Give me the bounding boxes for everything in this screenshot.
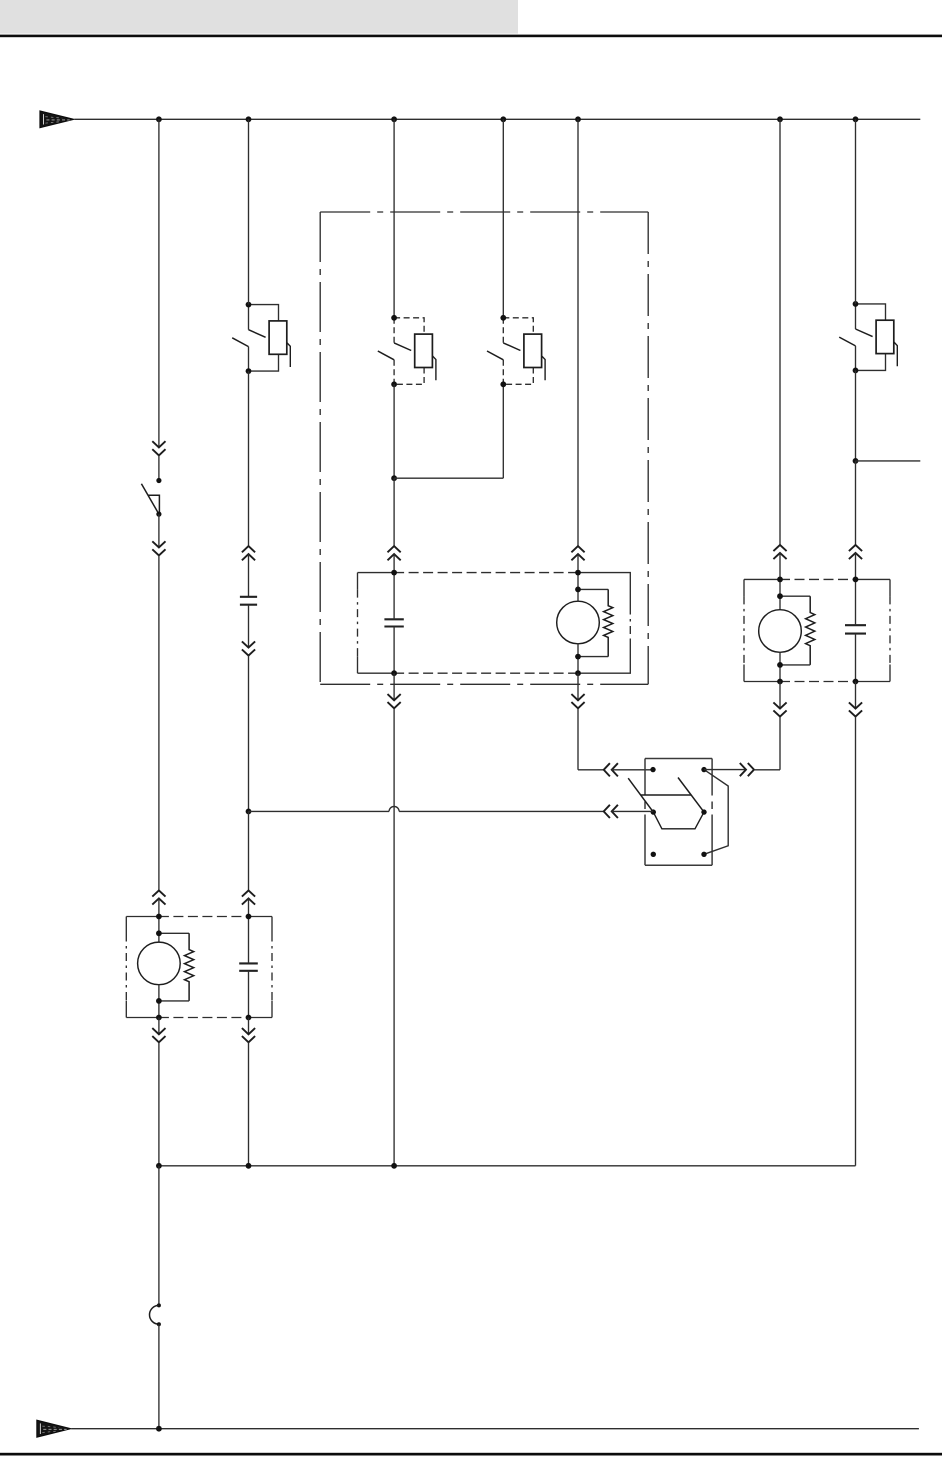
connector C7a (double chevron up) (849, 545, 862, 551)
motor M2 (radiator fan motor) with resistor (779, 579, 781, 596)
dash-dot box: fan control unit outline left (319, 212, 321, 684)
wire col2: junction to connector (248, 811, 250, 890)
wire col2: connector to ground rail (248, 1043, 250, 1166)
relay K1 pin4 (701, 809, 706, 814)
capacitor C3 (in radiator fan assembly) (845, 624, 866, 626)
capacitor C4 (in fan motor assembly) (239, 962, 258, 964)
wire col3: breaker to junction (393, 384, 395, 478)
dash-dot box: fan control unit outline bottom (320, 683, 648, 685)
circuit breaker CB2 (in control unit, dashed leads) (394, 318, 424, 334)
wire col4: bus into control unit (502, 119, 504, 317)
node bus/col5 (575, 116, 581, 122)
wire col6: box to connector (779, 682, 781, 709)
wire col1: box to connector (158, 1018, 160, 1035)
wire: col7 branch to page edge (856, 460, 921, 462)
bottom page rule (0, 1453, 942, 1456)
circuit breaker CB4 (856, 304, 886, 320)
wire col1: bus to connector (158, 119, 160, 447)
dash-dot box: fan control unit outline right (647, 212, 649, 684)
relay K1 pin5 (651, 852, 656, 857)
circuit breaker CB1 (249, 305, 279, 321)
relay K1 pin3 (651, 809, 656, 814)
relay K1 contact arm left (628, 778, 653, 812)
wire col7: bus to breaker (855, 119, 857, 304)
dashed box: condenser fan assembly bottom edge (358, 672, 395, 674)
wire col6: corner up to connector (779, 717, 781, 770)
wire col1: long run to fan motor (158, 556, 160, 891)
connector C1d (double chevron down) (152, 1028, 165, 1034)
connector C1a (double chevron down) (152, 441, 165, 447)
connector C6a (double chevron up) (773, 545, 786, 551)
node col3 assembly top (391, 570, 397, 576)
node rail/col2 (246, 1163, 252, 1169)
wire: connector to col6 corner (754, 769, 780, 771)
dashed box: radiator fan assembly bottom edge (744, 681, 780, 683)
relay K1 external jumper pin2-pin6 (704, 770, 728, 855)
relay K1 box right (with gap) (711, 759, 713, 796)
capacitor C-noise1 (240, 596, 257, 598)
dashed box: radiator fan assembly left edge (743, 579, 745, 596)
wire col5: down to relay corner (577, 709, 579, 770)
relay K1 pin1 (650, 767, 655, 772)
node bus/col7 (853, 116, 859, 122)
connector C1b (double chevron down) (152, 541, 165, 547)
wire col7: long run to ground rail (855, 717, 857, 1166)
node col3 assembly bottom (391, 670, 397, 676)
switch S1 bottom terminal (156, 511, 161, 516)
node bus/col4 (500, 116, 506, 122)
wire col1: rail to grommet (158, 1166, 160, 1306)
node bus/col6 (777, 116, 783, 122)
connector C3a (double chevron up) (388, 546, 401, 552)
wire: cross-link col3 to col4 y=478 (394, 477, 503, 479)
wire col6: bus to connector (779, 119, 781, 545)
node rail/col1 (156, 1163, 162, 1169)
connector C2a (double chevron up) (242, 546, 255, 552)
node bus/col3 (391, 116, 397, 122)
relay K1 movable contact cup (653, 812, 704, 829)
node col7 assembly top (853, 577, 859, 583)
wire col3: bus into control unit (393, 119, 395, 317)
motor M1 case loop dash-dot mid (629, 607, 631, 640)
circuit breaker CB3 (in control unit, dashed leads) (503, 318, 533, 334)
wire col7: box node to capacitor (855, 579, 857, 625)
wire col1: switch to connector (158, 514, 160, 547)
dashed box: fan motor assembly left edge (125, 917, 127, 934)
node bus/col1 (156, 116, 162, 122)
connector C2b (double chevron down) (242, 641, 255, 647)
wire: connector into relay pin3 (612, 810, 654, 812)
wire col2: connector to junction (248, 656, 250, 812)
node col7 branch (853, 458, 859, 464)
wire col2: box node to capacitor (248, 917, 250, 964)
connector C2c (double chevron up) (242, 890, 255, 896)
wire col1: connector to switch (158, 455, 160, 480)
wire: relay pin2 out right (704, 769, 746, 771)
wire col2: box to connector (248, 1018, 250, 1035)
wire col5: connector to motor (577, 554, 579, 573)
node bottom-bus/col1 (156, 1426, 162, 1432)
wire col7: capacitor to box node (855, 634, 857, 682)
wire col7: junction to connector (855, 461, 857, 545)
wire col2: bus to breaker (248, 119, 250, 304)
node col2/relay-feed junction (246, 809, 252, 815)
relay K1 pin2 (701, 767, 706, 772)
wire: col2 junction toward relay (with hop) (249, 810, 390, 812)
node bus/col2 (246, 116, 252, 122)
connector C6b (double chevron down) (773, 702, 786, 708)
switch S1 lever (141, 484, 159, 514)
wire col2: capacitor to box node (248, 971, 250, 1018)
page connector arrow A (top left, to other page) (40, 111, 74, 128)
relay K1 contact arm right (678, 778, 704, 813)
wire col3: long run to ground rail (393, 709, 395, 1166)
dashed box: radiator fan assembly top edge (744, 578, 780, 580)
wire col4: cross-link corner up (502, 384, 504, 478)
grommet connector bottom terminal (157, 1322, 161, 1326)
wire col2: capacitor to connector (248, 605, 250, 648)
dashed box: fan motor assembly top edge (126, 916, 159, 918)
connector C3b (double chevron down) (388, 694, 401, 700)
grommet connector top terminal (157, 1303, 161, 1307)
relay K1 box left (with gap) (644, 759, 646, 796)
wire col5: bus to connector (577, 119, 579, 546)
relay K1 contact link bar (641, 794, 692, 796)
connector C2d (double chevron down) (242, 1028, 255, 1034)
connector C5b (double chevron down) (571, 694, 584, 700)
header gray bar (0, 0, 518, 34)
relay K1 box bottom (645, 864, 712, 866)
wire col5: box to connector (577, 673, 579, 700)
node col2 assembly bottom (246, 1015, 252, 1021)
wire: col5 corner to relay (y=770) (578, 769, 604, 771)
dashed box: fan motor assembly right edge (271, 917, 273, 934)
top page rule (0, 35, 942, 38)
wire col1: connector to ground rail (158, 1043, 160, 1166)
dashed box: radiator fan assembly right edge (889, 579, 891, 596)
wire col3: box to connector (393, 673, 395, 700)
node col2 assembly top (246, 914, 252, 920)
wire col3: box node to capacitor (393, 573, 395, 620)
motor M1 case loop (578, 573, 630, 674)
wire: connector into relay pin1 (612, 769, 653, 771)
relay K1 box top (645, 758, 712, 760)
dashed box: fan motor assembly bottom edge (126, 1017, 159, 1019)
wire col2: connector to motor box (248, 898, 250, 916)
node col3/cross-link junction (391, 475, 397, 481)
node rail/col3 (391, 1163, 397, 1169)
connector C5a (double chevron up) (571, 546, 584, 552)
motor M3 (fan motor) with resistor (158, 917, 160, 934)
wire: ground rail y=1166 (159, 1165, 856, 1167)
switch S1 top terminal (156, 478, 161, 483)
motor M1 (condenser fan motor) with resistor (577, 573, 579, 590)
page connector arrow B (bottom left, ground) (37, 1420, 71, 1437)
connector C1c (double chevron up) (152, 890, 165, 896)
wire col2: breaker to connector (248, 371, 250, 546)
wire col2: connector to capacitor (248, 554, 250, 597)
relay K1 pin6 (701, 852, 706, 857)
dashed box: condenser fan assembly top edge (358, 572, 395, 574)
connector C6c (double chevron right) (740, 763, 746, 776)
dash-dot box: fan control unit outline top (320, 211, 648, 213)
connector C7b (double chevron down) (849, 702, 862, 708)
wire: bottom ground bus y=1429 (71, 1428, 919, 1430)
connector C-relay (double chevron left) (604, 805, 610, 818)
wire col1: connector to motor box (158, 898, 160, 916)
wire col1: grommet to bottom bus (158, 1324, 160, 1429)
wire col7: box to connector (855, 682, 857, 709)
connector C5c (double chevron left) (604, 763, 610, 776)
node col7 assembly bottom (853, 679, 859, 685)
wire: main bus (battery feed) y=119 (74, 118, 920, 120)
wire col3: junction to connector (393, 478, 395, 546)
wire col3: capacitor to box node (393, 627, 395, 674)
wire col3: connector to inner box (393, 554, 395, 573)
switch S1 flag (148, 495, 159, 514)
capacitor C2 (in fan assembly) (384, 618, 403, 620)
wire col7: breaker to junction (855, 370, 857, 461)
grommet connector arc (149, 1305, 158, 1324)
wire col7: connector to box (855, 553, 857, 580)
wire col6: connector to box (779, 553, 781, 580)
dashed box: condenser fan assembly left edge (357, 573, 359, 590)
